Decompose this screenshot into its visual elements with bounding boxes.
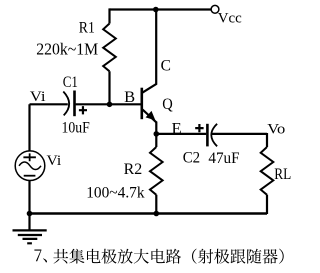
svg-text:E: E (172, 120, 182, 137)
svg-text:R2: R2 (124, 161, 143, 178)
svg-text:100~4.7k: 100~4.7k (86, 184, 144, 201)
svg-text:C1: C1 (63, 74, 78, 91)
svg-text:Vi: Vi (47, 153, 62, 169)
svg-text:R1: R1 (79, 19, 95, 36)
svg-text:10uF: 10uF (62, 119, 90, 136)
svg-text:C2: C2 (183, 149, 200, 166)
svg-text:B: B (124, 89, 135, 106)
svg-text:220k~1M: 220k~1M (36, 39, 98, 58)
svg-text:Q: Q (162, 96, 173, 113)
svg-text:C: C (161, 57, 171, 74)
svg-text:Vi: Vi (30, 89, 46, 105)
svg-text:Vo: Vo (267, 122, 285, 138)
svg-text:Vcc: Vcc (218, 10, 242, 26)
svg-text:47uF: 47uF (208, 150, 239, 167)
svg-text:RL: RL (274, 166, 291, 183)
